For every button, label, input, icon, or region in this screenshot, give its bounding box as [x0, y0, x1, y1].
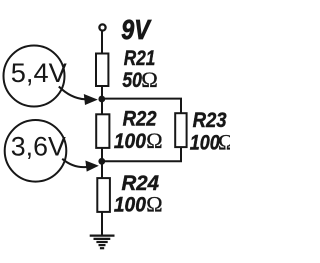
probe circle 3,6V — [5, 120, 67, 182]
wire terminal to R21 — [101, 31, 103, 54]
terminal 9V (open circle) — [99, 24, 105, 30]
leader to node B — [62, 159, 86, 167]
arrowhead at node A — [84, 94, 98, 105]
wire R22 to R24 through node B — [101, 148, 103, 178]
svg-text:Ω: Ω — [218, 129, 230, 154]
svg-text:100: 100 — [190, 131, 220, 154]
ground — [90, 236, 115, 249]
svg-text:Ω: Ω — [146, 192, 162, 217]
wire node A to R23 top — [102, 99, 181, 114]
arrowhead at node B — [85, 161, 98, 172]
svg-text:Ω: Ω — [146, 128, 162, 153]
resistor R21 — [96, 54, 108, 87]
svg-text:100: 100 — [114, 130, 146, 153]
svg-text:100: 100 — [114, 193, 146, 217]
svg-text:R21: R21 — [124, 46, 156, 70]
svg-text:9V: 9V — [121, 14, 152, 45]
svg-text:50: 50 — [122, 68, 142, 92]
wire R24 to ground — [101, 212, 103, 236]
svg-text:Ω: Ω — [141, 67, 158, 92]
wire R23 bottom to node B — [102, 147, 181, 161]
probe circle 5,4V — [4, 46, 65, 107]
resistor R22 — [96, 114, 109, 148]
wire R21 to node A — [101, 87, 103, 115]
node B — [98, 158, 105, 165]
node A — [98, 96, 105, 103]
svg-text:5,4V: 5,4V — [11, 58, 67, 88]
resistor R23 — [175, 113, 186, 147]
resistor R24 — [97, 178, 110, 212]
svg-text:3,6V: 3,6V — [11, 131, 66, 161]
leader to node A — [59, 87, 85, 100]
